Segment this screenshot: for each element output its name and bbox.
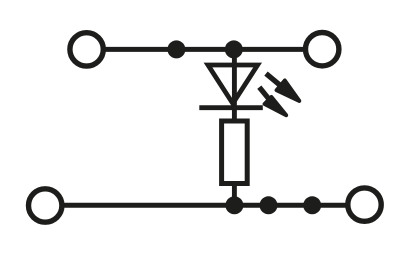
LED light-emission arrow lower — [259, 87, 286, 115]
terminal top-left — [70, 33, 103, 66]
junction dot top bus left — [167, 40, 185, 58]
wire LED branch (vertical) — [232, 49, 237, 121]
LED D1 triangle (anode) — [208, 65, 258, 104]
junction dot bottom bus right — [303, 196, 321, 214]
wire top bus — [87, 47, 323, 52]
junction dot bottom bus at resistor — [225, 196, 243, 214]
terminal bottom-left — [29, 189, 62, 222]
wire bottom bus — [45, 203, 364, 208]
terminal bottom-right — [348, 188, 381, 221]
LED light-emission arrow upper — [266, 74, 299, 101]
wire resistor to bottom bus — [232, 184, 237, 206]
junction dot top bus at LED branch — [225, 40, 243, 58]
terminal top-right — [306, 33, 339, 66]
LED D1 cathode bar — [199, 105, 262, 110]
resistor R1 body — [222, 121, 248, 184]
junction dot bottom bus middle — [260, 196, 278, 214]
